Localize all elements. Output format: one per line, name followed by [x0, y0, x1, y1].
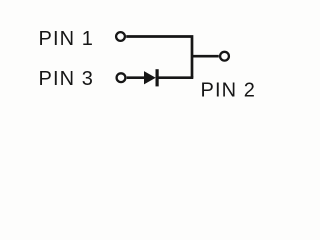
svg-text:PIN 2: PIN 2 [201, 80, 257, 102]
terminal PIN 1 [116, 32, 125, 41]
wire PIN1 to corner and down to diode net [126, 37, 192, 78]
terminal PIN 3 [117, 73, 126, 82]
svg-text:PIN 1: PIN 1 [39, 28, 95, 50]
diode D1 cathode bar [156, 69, 159, 86]
wire PIN3 to diode anode [127, 76, 145, 79]
terminal PIN 2 [220, 52, 229, 61]
diode D1 anode triangle [144, 71, 156, 84]
wire branch to PIN 2 [192, 55, 219, 58]
svg-text:PIN 3: PIN 3 [39, 68, 95, 90]
wire diode cathode to junction [159, 76, 194, 79]
